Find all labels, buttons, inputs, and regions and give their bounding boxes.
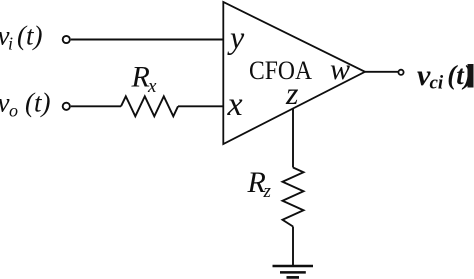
wire z to Rz <box>292 109 294 168</box>
node vi input label <box>0 21 42 54</box>
wire Rz to ground <box>292 227 294 266</box>
label Rx <box>131 61 158 98</box>
svg-text:z: z <box>285 75 299 111</box>
svg-text:z: z <box>263 181 272 202</box>
terminal circle vo <box>63 103 70 110</box>
ground <box>273 266 314 277</box>
resistor Rz <box>283 168 304 227</box>
svg-text:CFOA: CFOA <box>249 56 312 85</box>
edge artifact block <box>468 64 474 88</box>
svg-text:y: y <box>227 19 245 55</box>
wire w output <box>365 71 398 73</box>
svg-text:x: x <box>147 76 157 97</box>
svg-text:o: o <box>9 101 18 121</box>
wire Rx to x <box>178 105 223 107</box>
node vci output label <box>417 59 473 94</box>
svg-text:(t): (t) <box>17 21 42 51</box>
svg-text:x: x <box>227 86 243 123</box>
wire vi to y <box>71 39 223 41</box>
node vo input label <box>0 88 50 121</box>
label Rz <box>247 166 272 202</box>
resistor Rx <box>121 96 178 116</box>
svg-text:w: w <box>330 53 350 86</box>
svg-text:(t): (t) <box>25 88 50 118</box>
terminal circle vi <box>63 36 70 43</box>
terminal circle output <box>398 70 403 75</box>
svg-text:R: R <box>131 61 150 94</box>
wire vo to Rx <box>71 105 121 107</box>
svg-text:ci: ci <box>430 73 444 94</box>
svg-text:i: i <box>8 34 13 54</box>
op-amp CFOA triangle <box>223 2 365 144</box>
